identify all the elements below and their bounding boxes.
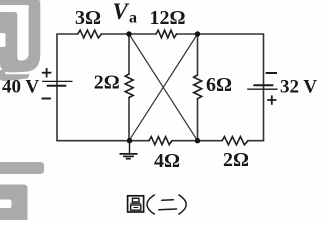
svg-text:32 V: 32 V [280,77,317,98]
svg-text:2Ω: 2Ω [223,149,249,171]
svg-text:12Ω: 12Ω [150,7,186,29]
svg-text:40 V: 40 V [2,77,39,98]
svg-text:a: a [129,10,137,27]
svg-text:4Ω: 4Ω [154,150,180,172]
svg-text:2Ω: 2Ω [94,72,120,94]
svg-text:3Ω: 3Ω [75,7,101,29]
svg-text:V: V [113,0,130,24]
svg-text:6Ω: 6Ω [206,74,232,96]
